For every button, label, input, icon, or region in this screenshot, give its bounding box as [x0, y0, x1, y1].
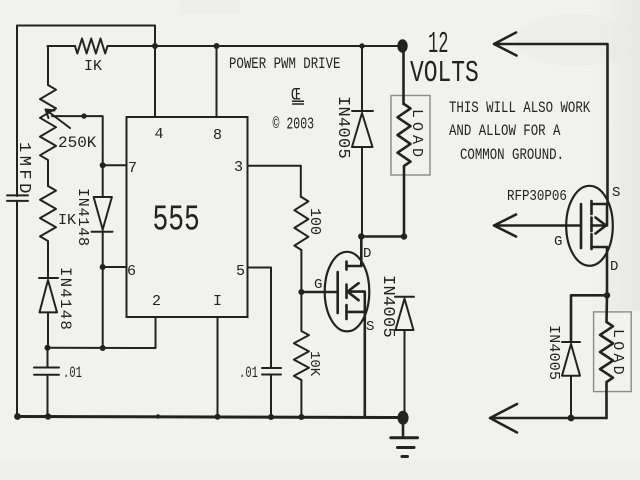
wire: gate wire to Q1: [301, 291, 336, 294]
svg-text:G: G: [554, 234, 562, 250]
transistor Q2 body arrow: [592, 204, 608, 234]
node junction at (361.3,236.5): [358, 233, 364, 239]
svg-text:IN4148: IN4148: [56, 267, 74, 331]
svg-text:100: 100: [306, 208, 323, 235]
svg-text:.01: .01: [239, 364, 258, 382]
svg-text:7: 7: [128, 160, 137, 177]
svg-text:LOAD: LOAD: [408, 109, 425, 161]
wire: top-right arrow to 12V: [494, 33, 608, 205]
resistor R 1K (left vertical): [40, 186, 56, 278]
diode D2 IN4148 (middle, pointing down): [92, 197, 113, 232]
transistor Q1 MOSFET ellipse: [325, 252, 370, 332]
node rail dot left end: [14, 413, 21, 420]
svg-text:G: G: [314, 277, 322, 293]
wire: pin 1 drop: [217, 317, 219, 417]
transistor Q1 source link: [347, 312, 365, 417]
node junction at (47.5,347.5): [45, 345, 51, 351]
svg-text:LOAD: LOAD: [609, 329, 626, 378]
svg-text:IN4148: IN4148: [74, 188, 91, 247]
load resistor LOAD1 zigzag: [398, 46, 411, 237]
transistor Q1 body arrow: [348, 283, 365, 312]
transistor Q2 gate bar: [580, 204, 583, 248]
wire: pin 2 run: [48, 317, 156, 348]
node rail dot at 217.5: [215, 414, 221, 420]
node junction gate node (301.4,292): [298, 289, 304, 295]
capacitor C3 .01 (right): [262, 368, 281, 417]
node ground terminal dot: [397, 411, 408, 425]
wire: pin 5 run to cap: [248, 268, 272, 369]
svg-text:.01: .01: [63, 364, 82, 382]
svg-text:THIS WILL ALSO WORK: THIS WILL ALSO WORK: [449, 100, 591, 118]
load resistor box LOAD1: [391, 96, 430, 176]
wire: pin 3 run to 100 ohm: [248, 166, 301, 197]
node junction at (571,418): [568, 415, 575, 422]
wire: diode D2 leads: [102, 165, 104, 348]
svg-text:D: D: [363, 246, 371, 262]
diode D4 IN4005 (mid, drain to ground): [395, 297, 414, 411]
load resistor LOAD2 zigzag: [600, 295, 613, 418]
svg-text:4: 4: [155, 126, 164, 143]
potentiometer 250K: [40, 46, 56, 186]
diode D1 IN4148 (left): [39, 278, 58, 348]
diode D3 IN4005 (top left): [352, 46, 373, 237]
wire: +V rail y=46 right part: [108, 45, 403, 47]
svg-text:POWER PWM DRIVE: POWER PWM DRIVE: [229, 56, 340, 74]
wire: left outer loop bottom segment: [16, 201, 18, 417]
node junction at (216.5,46): [214, 43, 220, 49]
node 12V terminal dot: [397, 39, 407, 53]
diode D5 IN4005 (right): [562, 342, 580, 418]
node junction at (404,236.5): [401, 233, 407, 239]
svg-text:RFP30P06: RFP30P06: [507, 189, 567, 205]
wire: drain node bus: [361, 235, 404, 238]
resistor R 10K: [294, 292, 309, 417]
svg-text:IN4005: IN4005: [545, 325, 562, 380]
svg-text:555: 555: [153, 201, 200, 241]
svg-text:S: S: [366, 319, 374, 335]
node junction at (103,165.3): [100, 162, 106, 168]
svg-text:COMMON GROUND.: COMMON GROUND.: [460, 147, 564, 165]
svg-text:10K: 10K: [306, 351, 322, 377]
wire: bottom ground rail: [17, 417, 402, 418]
capacitor C1 1MFD plates: [7, 195, 28, 201]
svg-text:1MFD: 1MFD: [14, 142, 33, 197]
node rail dot at 301.4: [298, 414, 304, 420]
svg-text:IN4005: IN4005: [333, 96, 352, 159]
potentiometer wiper arrow: [46, 110, 71, 129]
wire: wiper to pin7 column: [52, 116, 103, 165]
op-amp U1 555 timer box: [127, 117, 248, 317]
resistor R 1K (top): [75, 39, 108, 54]
node rail dot at 48: [45, 413, 51, 419]
svg-text:250K: 250K: [58, 134, 97, 152]
svg-text:8: 8: [213, 127, 222, 144]
wire: +V rail y=46 left part: [48, 45, 76, 47]
svg-text:5: 5: [236, 263, 245, 280]
transistor Q2 MOSFET ellipse: [566, 186, 613, 266]
node junction at (607,295.3): [604, 292, 610, 298]
svg-text:D: D: [610, 259, 618, 275]
wire: bottom-right arrow: [490, 404, 607, 433]
svg-text:3: 3: [234, 159, 243, 176]
capacitor C2 .01 (left): [34, 348, 59, 417]
svg-text:© 2003: © 2003: [273, 116, 315, 135]
transistor Q2 source link: [592, 203, 608, 206]
node junction at (155,46): [152, 43, 158, 49]
node junction at (362,46): [359, 43, 364, 48]
node rail dot at 271: [268, 414, 274, 420]
wire: pin 4 riser: [154, 46, 156, 117]
wire: pin 7 stub: [103, 164, 127, 166]
transistor Q2 drain link: [592, 247, 608, 295]
svg-text:IK: IK: [84, 58, 102, 75]
svg-text:S: S: [612, 185, 620, 201]
svg-text:AND ALLOW FOR A: AND ALLOW FOR A: [449, 123, 561, 141]
node junction at (84,116): [81, 113, 86, 118]
transistor Q2 channel bar: [590, 201, 593, 249]
transistor Q1 drain link: [347, 237, 362, 267]
transistor Q1 gate bar: [336, 272, 339, 313]
load resistor box LOAD2: [594, 312, 632, 392]
node rail dot at 158: [156, 414, 160, 418]
node junction at (103,348): [100, 345, 106, 351]
svg-text:IK: IK: [58, 212, 76, 229]
svg-text:6: 6: [127, 263, 136, 280]
transistor Q1 channel bar: [345, 262, 348, 320]
wire: gate arrow Q2: [494, 215, 581, 237]
svg-text:IN4005: IN4005: [378, 275, 397, 338]
wire: left outer loop top segment: [17, 26, 155, 197]
wire: pin 6 stub: [103, 266, 127, 268]
wire: branch to diode D5: [571, 295, 607, 342]
node junction at (103,267): [100, 264, 106, 270]
svg-text:2: 2: [152, 293, 161, 310]
resistor R 100: [294, 197, 308, 292]
svg-text:VOLTS: VOLTS: [410, 56, 479, 91]
ground symbol: [402, 424, 405, 436]
svg-text:I: I: [213, 293, 222, 310]
label OE underline 2: [292, 101, 304, 104]
wire: pin 8 riser: [216, 46, 218, 117]
